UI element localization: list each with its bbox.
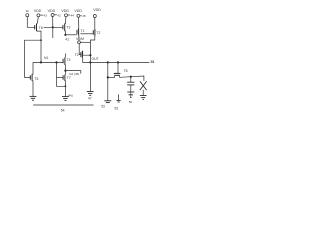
wire column down to ground <box>89 62 91 91</box>
bottom rail 54 <box>33 105 93 112</box>
svg-text:47: 47 <box>88 97 92 101</box>
terminal VDD (T3 source) <box>61 9 74 17</box>
node N1 wire <box>33 61 63 63</box>
wire OUT line to node 51 <box>90 61 149 63</box>
svg-text:T2: T2 <box>96 31 100 35</box>
capacitor C <box>127 77 134 92</box>
wire T5 drain up to N1 <box>31 62 34 74</box>
svg-text:52: 52 <box>101 104 105 108</box>
crystal Q1 (X symbol) <box>140 81 147 95</box>
node N2 junction <box>64 70 66 72</box>
svg-text:41: 41 <box>65 37 69 41</box>
transistor T2 (right) <box>93 29 100 36</box>
svg-text:T5: T5 <box>34 77 38 81</box>
svg-text:53: 53 <box>114 107 118 111</box>
transistor T7 (lower middle) <box>63 75 71 81</box>
terminal VDD (T1 source) <box>74 9 82 17</box>
svg-text:54: 54 <box>61 108 65 112</box>
wire N2 down to T7 drain <box>64 71 66 75</box>
wire T4 drain stub <box>64 54 66 58</box>
ground T7 source <box>62 97 69 101</box>
wire VDM to output column <box>80 41 90 43</box>
wire T2 drain to output column <box>90 36 94 62</box>
svg-text:VDD: VDD <box>93 8 101 12</box>
wire VDD to T2 source <box>94 18 96 30</box>
node junction T6 drain / left rail <box>40 39 42 41</box>
wire VDD to T1 source <box>78 17 80 28</box>
label 45 leader <box>80 15 81 17</box>
wire bias terminal down to gate line <box>52 17 54 28</box>
wire node to crystal corner <box>131 76 144 81</box>
wire stub below junction <box>52 27 54 38</box>
node OUT junction <box>89 61 91 63</box>
svg-text:44: 44 <box>71 13 75 17</box>
wire down to ground 52 <box>107 77 109 100</box>
svg-text:T1: T1 <box>81 29 85 33</box>
svg-text:OUT: OUT <box>92 57 99 61</box>
transistor T8 (horizontal, feedback) <box>114 69 128 77</box>
transistor T1 <box>77 28 85 36</box>
wire terminal40 to T6 gate <box>27 17 34 28</box>
svg-text:N2 (45): N2 (45) <box>69 72 79 76</box>
wire T4 source to node N2 <box>64 65 67 71</box>
node junction on gate line <box>52 26 54 28</box>
node junction capacitor <box>130 76 132 78</box>
wire T5 source to ground <box>31 81 34 96</box>
wire T6 drain down to N1 <box>37 31 41 63</box>
transistor T6 <box>35 23 43 31</box>
svg-text:VDD: VDD <box>48 9 56 13</box>
svg-text:42: 42 <box>57 13 61 17</box>
node junction OUT line / T8 source branch <box>107 61 109 63</box>
wire gate line to T3 gate <box>44 26 63 28</box>
wire N1 drop down <box>57 62 66 86</box>
ground T5 source <box>30 96 37 100</box>
terminal VDD (bias input) <box>48 9 61 17</box>
node 41 junction <box>64 34 66 36</box>
svg-text:T4: T4 <box>67 58 71 62</box>
svg-text:40: 40 <box>26 9 30 13</box>
terminal VDD (T2 source) <box>93 8 101 17</box>
wire T8 drain to node <box>120 76 131 79</box>
wire left rail to T5 gate <box>25 40 42 77</box>
svg-text:T3: T3 <box>66 26 70 30</box>
transistor T4 <box>63 57 71 65</box>
wire T3 drain to node 41 <box>64 31 66 35</box>
svg-text:VDD: VDD <box>34 9 42 13</box>
node junction N1/T6 drain <box>40 61 42 63</box>
svg-text:N1: N1 <box>44 56 48 60</box>
svg-text:VDD: VDD <box>61 9 69 13</box>
ground below output column <box>87 92 94 101</box>
svg-text:51: 51 <box>151 60 155 64</box>
wire OUT down to T8 gate <box>117 62 119 73</box>
wire T7 source to ground <box>64 81 67 96</box>
node junction at T8 source <box>107 76 109 78</box>
node junction T2 drain <box>89 54 91 56</box>
wire VDM down to T2 gate <box>79 44 81 55</box>
wire VDD to T3 source <box>64 17 67 24</box>
transistor T5 <box>30 74 38 81</box>
svg-text:(46): (46) <box>68 94 73 98</box>
ground 52 <box>101 101 111 109</box>
ground crystal <box>140 96 147 100</box>
terminal 40 (top-left input) <box>26 9 30 17</box>
node junction OUT/T8 gate <box>117 61 119 63</box>
svg-text:50: 50 <box>129 100 133 104</box>
transistor T3 <box>63 23 71 31</box>
node junction N1 drop <box>55 61 57 63</box>
svg-text:T8: T8 <box>124 69 128 73</box>
wire T1 drain to VDM <box>78 36 80 41</box>
wire T8 source segment <box>108 76 115 78</box>
svg-text:45: 45 <box>82 14 86 18</box>
wire N2 to right <box>65 71 80 74</box>
svg-text:T7: T7 <box>67 76 71 80</box>
svg-text:T6: T6 <box>39 26 43 30</box>
wire T7 gate from N1 drop <box>57 76 64 78</box>
svg-text:43: 43 <box>43 14 47 18</box>
wire VDD to T6 source <box>37 17 38 24</box>
terminal VDM <box>76 37 84 44</box>
terminal VDD (T6 source) <box>34 9 47 17</box>
wire T1 gate to T2 gate <box>80 33 93 35</box>
svg-text:T2: T2 <box>75 53 79 57</box>
svg-text:VDM: VDM <box>76 37 84 41</box>
wire T2 drain to column <box>83 51 91 55</box>
ground capacitor <box>127 92 134 104</box>
wire OUT down to T8 source <box>107 62 109 77</box>
floating ground mark 53 <box>114 94 120 110</box>
wire T2 source to OUT <box>83 58 91 63</box>
wire node41 to T1 gate <box>65 34 76 36</box>
transistor T2 (source follower) <box>75 51 83 58</box>
svg-text:VDD: VDD <box>74 9 82 13</box>
